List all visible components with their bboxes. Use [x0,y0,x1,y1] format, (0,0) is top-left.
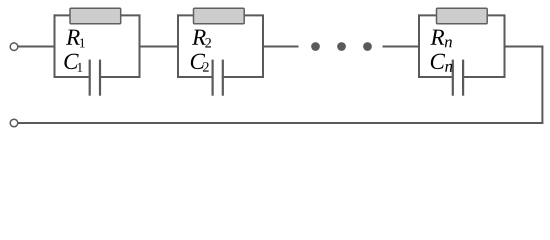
resistor Rn [437,8,488,24]
node block 2 frame [177,14,264,78]
node block 1 frame [54,14,141,78]
terminal output (bottom left) [10,119,18,127]
wire block n to right corner [505,46,544,48]
wire block 2 right edge [262,14,264,78]
wire block 1 to block 2 [140,46,179,48]
capacitor Cn [453,60,463,96]
wire block 2 to ellipsis [263,46,299,48]
wire ellipsis to block n [383,46,420,48]
resistor R1 [70,8,121,24]
wire block n left edge [418,14,420,78]
wire block 2 left edge [177,14,179,78]
wire block 1 bottom edge right part [99,76,140,78]
label R2 [192,30,211,48]
wire right vertical return [541,46,543,125]
label Rn [430,30,452,48]
label R1 [66,30,85,48]
label C2 [191,54,209,72]
wire block 2 bottom edge right part [222,76,264,78]
wire block 1 bottom edge left part [54,76,89,78]
wire block n bottom edge left part [418,76,452,78]
label Cn [431,54,453,72]
ellipsis dots (continuation) [311,42,372,51]
resistor R2 [194,8,245,24]
node block n frame [418,14,506,78]
terminal input (top left) [10,43,18,51]
wire bottom return [18,122,544,124]
wire block 2 top edge [177,14,263,16]
capacitor C2 [213,60,223,96]
wire block n right edge [504,14,506,78]
wire block n top edge [418,14,505,16]
wire block n bottom edge right part [462,76,505,78]
wire block 1 top edge [54,14,140,16]
wire block 1 left edge [54,14,56,78]
capacitor C1 [90,60,100,96]
label C1 [64,54,82,72]
wire block 2 bottom edge left part [177,76,212,78]
wire block 1 right edge [139,14,141,78]
wire input terminal to block 1 [18,46,55,48]
